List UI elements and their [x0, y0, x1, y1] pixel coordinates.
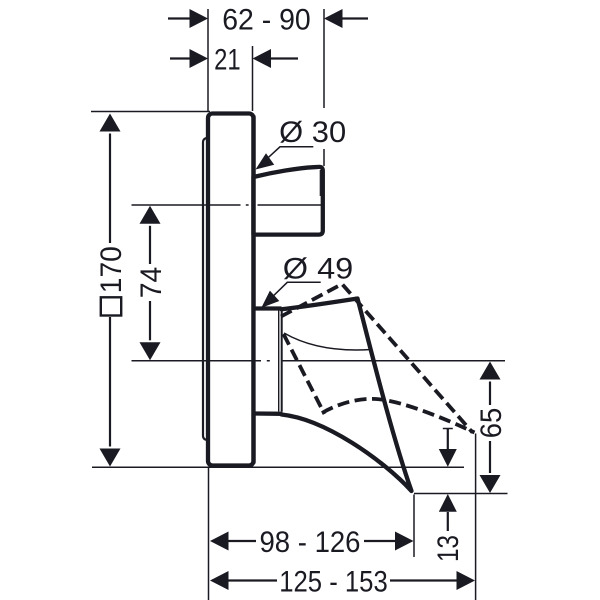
extension line x252.5 top: [252, 46, 254, 111]
svg-text:98 - 126: 98 - 126: [260, 526, 361, 559]
extension line x475.6 dashed tip: [475, 434, 477, 600]
svg-text:170: 170: [95, 246, 128, 293]
dimension 13: [432, 429, 465, 563]
lever swung position dashed outline top: [281, 284, 473, 433]
sleeve rim line 2: [281, 311, 283, 412]
dimension 125-153: [210, 565, 475, 598]
extension line plate top: [91, 111, 210, 113]
svg-text:Ø 30: Ø 30: [279, 116, 346, 149]
dimension 65: [475, 362, 508, 494]
svg-text:21: 21: [214, 43, 241, 76]
dimension 98-126: [210, 526, 414, 559]
label O30 leader: [259, 147, 314, 167]
lever surface contour line: [284, 333, 371, 350]
plate right edge redraw: [251, 116, 255, 464]
lever swung position dashed left edge: [284, 334, 325, 414]
svg-text:65: 65: [475, 408, 508, 439]
lever handle outline: [282, 299, 412, 492]
cartridge sleeve O49 fill: [254, 309, 282, 414]
svg-text:62 - 90: 62 - 90: [222, 3, 311, 36]
svg-text:74: 74: [135, 267, 168, 299]
centerline lower axis: [132, 360, 506, 362]
svg-text:Ø 49: Ø 49: [283, 253, 354, 286]
sleeve bottom edge: [252, 411, 283, 416]
svg-text:125 - 153: 125 - 153: [279, 565, 388, 598]
dimension 74: [135, 206, 168, 360]
extension line plate bottom: [92, 466, 464, 468]
wall flange (thin plate behind escutcheon): [203, 138, 212, 440]
extension line y493.5: [414, 493, 508, 495]
handle inner rim line: [319, 170, 321, 196]
extension line x324 top: [323, 9, 325, 166]
lever handle fill: [282, 299, 412, 492]
sleeve rim line 1: [278, 311, 280, 412]
lever swung position dashed bottom curve: [322, 399, 475, 433]
escutcheon plate (side view): [208, 114, 254, 466]
diverter knob O30 (side view): [254, 167, 323, 235]
svg-text:13: 13: [432, 535, 465, 562]
dimension 62-90: [168, 3, 368, 36]
extension line x414 lever tip: [413, 495, 415, 558]
dimension 21: [170, 43, 298, 76]
extension line x208.5 bottom: [208, 467, 210, 600]
centerline upper axis: [132, 204, 324, 206]
label O49 leader: [264, 282, 321, 305]
extension line x208 top: [207, 9, 209, 111]
sleeve top edge: [252, 306, 282, 310]
dimension 170: [95, 114, 128, 467]
